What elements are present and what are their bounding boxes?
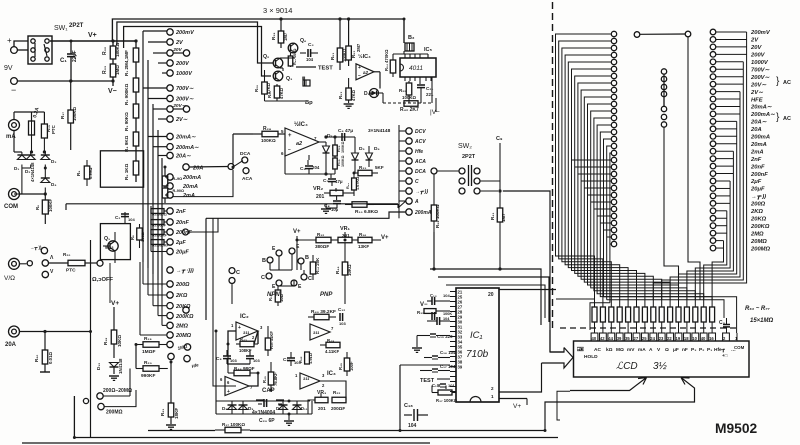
IC5 4011 chip — [400, 58, 436, 77]
sw2 contact 200mA — [406, 209, 412, 215]
svg-text:103: 103 — [230, 358, 237, 363]
wire bottom rail 443 — [22, 442, 430, 444]
svg-text:40: 40 — [592, 336, 597, 341]
svg-text:½IC₄: ½IC₄ — [358, 53, 371, 60]
svg-text:D₃: D₃ — [51, 159, 56, 164]
svg-text:→┲ ·))): →┲ ·))) — [176, 268, 194, 274]
rotary contact 20V — [167, 50, 173, 56]
svg-text:ℒCD: ℒCD — [616, 361, 638, 372]
IC5 top pins — [404, 54, 406, 58]
diode D13 LED — [370, 89, 379, 98]
svg-text:200nF: 200nF — [750, 172, 768, 178]
hfe socket B2 — [298, 258, 304, 264]
svg-text:100KΩ: 100KΩ — [341, 141, 345, 153]
wire bus vertical 153 — [152, 104, 154, 274]
svg-text:100KΩ: 100KΩ — [72, 107, 77, 121]
hfe socket C1 — [266, 273, 272, 279]
rotary contact 2mA — [167, 192, 173, 198]
svg-text:200ΩF: 200ΩF — [331, 406, 345, 411]
wire arrow feed upper — [550, 330, 564, 352]
resistor cap-range R&#8325;&#8326;900&#937; — [151, 209, 164, 214]
wire rail 218 left drop — [205, 218, 207, 320]
diode D6 — [366, 153, 373, 160]
svg-text:D₈: D₈ — [222, 406, 227, 411]
wire diode join — [22, 167, 31, 169]
rotary contact 20A&#8764; — [167, 152, 173, 158]
svg-text:a2: a2 — [363, 70, 369, 75]
svg-text:R₂ 900KΩ: R₂ 900KΩ — [124, 83, 129, 105]
rotary contact 200mA — [167, 174, 173, 180]
wire bus to 20M — [139, 262, 141, 335]
svg-text:10KΩ: 10KΩ — [347, 264, 352, 276]
capacitor osc2 — [276, 399, 284, 401]
svg-text:ACA: ACA — [414, 159, 426, 165]
transistor Q6 — [288, 43, 298, 53]
wire sw2 to c9 — [480, 180, 500, 182]
svg-text:2nF: 2nF — [750, 157, 762, 163]
wire matrix left feeds lower — [604, 139, 612, 297]
svg-text:0.99Ω: 0.99Ω — [88, 167, 93, 179]
svg-text:AC: AC — [783, 80, 791, 86]
junction DCA — [242, 157, 248, 163]
resistor R10 6.8K — [345, 204, 352, 206]
svg-text:4×1N4148: 4×1N4148 — [30, 162, 35, 182]
wire mA node down — [13, 131, 15, 153]
resistor R41b 11KF — [267, 330, 269, 338]
resistor R51 100K — [339, 19, 341, 48]
rotary contact 200Mohm — [98, 403, 104, 409]
battery 9V negative terminal — [11, 78, 18, 85]
wire cap range chain — [150, 206, 152, 247]
svg-text:R₉: R₉ — [76, 171, 81, 176]
wire dcv bus drop — [398, 212, 400, 218]
svg-text:20KΩ: 20KΩ — [750, 216, 767, 222]
rotary contact C lower — [229, 278, 235, 284]
rotary contact 200mV — [167, 29, 173, 35]
svg-text:M9502: M9502 — [715, 421, 758, 436]
wire battery minus rail — [17, 80, 113, 82]
svg-text:2P2T: 2P2T — [69, 23, 84, 29]
resistor R43 108KF — [236, 343, 240, 345]
svg-text:MΩ: MΩ — [616, 347, 624, 353]
wire D13 to R42 — [370, 92, 384, 94]
svg-text:E: E — [272, 246, 276, 252]
rotary contact 700V&#8764; — [167, 85, 173, 91]
wire shunt stubs — [165, 176, 167, 178]
sw2 contact C — [406, 178, 412, 184]
svg-text:ACV: ACV — [414, 139, 426, 145]
svg-text:47KΩ: 47KΩ — [351, 89, 356, 101]
svg-text:101: 101 — [448, 383, 455, 388]
svg-text:201: 201 — [316, 194, 325, 200]
svg-text:200V: 200V — [750, 53, 766, 59]
svg-text:710b: 710b — [466, 349, 489, 360]
junction circle Q1 base — [97, 260, 103, 266]
ground C8 — [326, 207, 337, 209]
arrow below LCD right — [600, 378, 695, 403]
resistor R55 100K — [408, 81, 410, 83]
svg-text:R₁₇: R₁₇ — [60, 112, 65, 119]
terminal COM — [9, 189, 20, 200]
svg-text:R₄₁: R₄₁ — [490, 212, 495, 220]
svg-text:C: C — [261, 275, 265, 281]
svg-text:R₃₂: R₃₂ — [102, 47, 108, 55]
svg-text:IC₁: IC₁ — [470, 330, 483, 341]
svg-text:2M7: 2M7 — [356, 43, 361, 52]
svg-text:1: 1 — [735, 336, 738, 341]
rotary contact 200mA&#8764; — [167, 144, 173, 150]
svg-text:200mA: 200mA — [182, 175, 201, 181]
resistor cap-range R&#8325;&#8327;900F — [151, 220, 164, 225]
IC1 notch — [470, 397, 481, 403]
svg-text:−: − — [288, 147, 291, 153]
junction dots — [280, 18, 283, 21]
svg-text:PTC: PTC — [66, 268, 76, 274]
wire COM node — [20, 193, 46, 195]
wire dcv bus — [399, 130, 406, 132]
svg-text:B: B — [262, 258, 266, 264]
fuse 0.2A — [13, 112, 15, 120]
svg-text:200KΩ: 200KΩ — [175, 314, 194, 320]
capacitor C16 104 — [432, 355, 438, 357]
svg-text:100KΩ: 100KΩ — [261, 138, 276, 143]
svg-text:1: 1 — [231, 323, 234, 328]
resistor R14 20K — [312, 255, 314, 262]
svg-text:20mA: 20mA — [750, 142, 767, 148]
svg-text:Q₂: Q₂ — [263, 54, 270, 60]
svg-text:R₂₀: R₂₀ — [144, 360, 152, 366]
svg-text:20V∼: 20V∼ — [750, 82, 767, 88]
resistor R32 180K — [112, 41, 114, 46]
LCD body — [574, 341, 750, 377]
terminal 20A — [9, 326, 20, 337]
capacitor C14 100K — [431, 312, 433, 320]
svg-text:6: 6 — [220, 377, 223, 382]
rotary contact 1M row — [167, 341, 173, 347]
svg-text:AC: AC — [594, 347, 601, 353]
wire rail 203 right — [248, 203, 399, 205]
rotary contact 20V&#8764; — [167, 106, 173, 112]
wire sw2 pole2 — [480, 190, 498, 192]
svg-text:19: 19 — [676, 336, 681, 341]
svg-text:COM: COM — [734, 345, 745, 350]
svg-text:2μF: 2μF — [750, 179, 762, 185]
svg-text:1: 1 — [295, 373, 298, 378]
svg-text:200mV: 200mV — [175, 30, 195, 36]
svg-text:4011: 4011 — [409, 65, 423, 72]
svg-text:2: 2 — [322, 383, 325, 388]
rotary contact second column 20V~ — [183, 106, 189, 112]
transistor Q3 — [273, 71, 283, 81]
resistor R9 099 — [86, 160, 88, 166]
hfe socket C2 — [301, 274, 307, 280]
svg-text:C₁₃: C₁₃ — [430, 293, 437, 298]
svg-text:6: 6 — [281, 151, 284, 156]
svg-text:700V∼: 700V∼ — [176, 86, 194, 92]
svg-text:4×1N4004: 4×1N4004 — [252, 410, 275, 416]
svg-text:10KΩ: 10KΩ — [117, 335, 122, 347]
ground IC1 caps — [417, 335, 424, 337]
wire R28 feed from junction — [233, 133, 253, 135]
svg-text:R₄₅: R₄₅ — [262, 376, 267, 383]
svg-text:R₅₉900KF: R₅₉900KF — [152, 244, 169, 248]
wire 20A to right — [20, 331, 91, 333]
svg-text:−: − — [358, 73, 361, 79]
resistor R35 — [424, 309, 436, 314]
svg-text:DCV: DCV — [415, 129, 426, 135]
svg-text:311: 311 — [313, 330, 320, 335]
transistor Q2 — [273, 58, 283, 68]
svg-text:E: E — [298, 284, 302, 290]
wire current stubs — [148, 136, 167, 138]
resistor R15 10 ohm — [277, 286, 279, 290]
svg-text:B₂: B₂ — [408, 35, 415, 41]
svg-text:R₄ 9KΩ: R₄ 9KΩ — [124, 135, 129, 152]
wire rail 218 to 200mA contact — [206, 212, 406, 218]
rotary contact C upper — [229, 268, 235, 274]
svg-text:}: } — [776, 112, 780, 123]
svg-text:100Ω: 100Ω — [140, 231, 145, 242]
rotary contact &#8594;&#9522; &#183;))) — [167, 267, 173, 273]
hfe socket E4 — [291, 280, 297, 286]
wire ac contact stubs — [143, 87, 167, 89]
svg-text:104: 104 — [408, 423, 417, 429]
capacitor C15 280 — [436, 317, 438, 325]
wire SW1 to V+ rail — [50, 40, 136, 42]
wire osc rail 401 — [216, 400, 310, 402]
resistor R52 2M7 — [348, 19, 350, 46]
wire buzzer block — [264, 94, 266, 101]
svg-text:2MΩ: 2MΩ — [750, 231, 764, 237]
resistor R19 PTC — [43, 112, 45, 124]
svg-text:R₂₀: R₂₀ — [63, 252, 70, 257]
resistor R7 90 ohm — [162, 188, 168, 198]
rotary contact 990K row — [168, 353, 174, 359]
junction circle 688 — [685, 31, 691, 37]
svg-text:200mA∼: 200mA∼ — [175, 145, 199, 151]
svg-text:C: C — [236, 270, 240, 276]
svg-text:104: 104 — [443, 317, 450, 321]
svg-text:DCA: DCA — [240, 151, 251, 157]
resistor R41 1M — [499, 188, 501, 208]
svg-text:20A: 20A — [750, 127, 762, 133]
svg-text:R₅ 1KΩ: R₅ 1KΩ — [124, 163, 129, 180]
svg-text:2mA: 2mA — [750, 149, 764, 155]
resistor R3 90KD — [135, 92, 137, 104]
rotary contact 200K&#937; — [167, 312, 173, 318]
svg-text:R₁₉: R₁₉ — [144, 336, 152, 342]
capacitor osc1 — [256, 399, 264, 401]
svg-text:44: 44 — [608, 336, 613, 341]
svg-text:IC₃: IC₃ — [327, 371, 336, 377]
svg-text:R₅₈91KF: R₅₈91KF — [152, 234, 168, 238]
dashed bus separator — [552, 2, 554, 330]
svg-text:100F: 100F — [349, 361, 354, 371]
svg-text:kΩ: kΩ — [606, 347, 613, 353]
matrix middle contact column — [661, 69, 666, 74]
box around Q1 — [100, 224, 130, 260]
svg-text:C₁₈: C₁₈ — [404, 403, 413, 409]
resistor R60 0.01 ohm shunt — [44, 332, 46, 351]
label TEST mid — [296, 66, 316, 68]
junction circle 637 — [634, 32, 640, 38]
terminal mA — [9, 120, 20, 131]
svg-text:R₁₅: R₁₅ — [268, 294, 273, 301]
svg-text:200mA: 200mA — [750, 135, 770, 141]
wire VR3 left leg — [308, 400, 315, 414]
svg-text:+: + — [238, 325, 241, 331]
svg-text:R₇90Ω: R₇90Ω — [173, 189, 185, 193]
wire sw2 to matrix — [503, 191, 550, 352]
svg-text:IC₅: IC₅ — [424, 47, 433, 53]
svg-text:R₃₁: R₃₁ — [346, 183, 350, 189]
wire C contacts down — [231, 284, 233, 305]
svg-text:20A: 20A — [5, 342, 17, 348]
svg-text:D₁₁: D₁₁ — [301, 406, 308, 411]
svg-text:R₁₈: R₁₈ — [103, 338, 108, 345]
wire IC3a output loop — [320, 381, 346, 400]
diode D7 — [325, 142, 327, 146]
svg-text:1: 1 — [491, 394, 494, 399]
svg-text:42: 42 — [600, 336, 605, 341]
svg-text:D₁₂: D₁₂ — [96, 363, 101, 370]
resistor R48 4.11KF — [320, 344, 326, 346]
svg-text:3×1N4148: 3×1N4148 — [368, 128, 391, 134]
svg-text:5KF: 5KF — [375, 165, 384, 170]
rotary contact 20M&#937; — [167, 332, 173, 338]
svg-text:⍈▣: ⍈▣ — [577, 347, 584, 353]
svg-text:R₅₃: R₅₃ — [338, 92, 343, 99]
svg-text:100K: 100K — [443, 312, 452, 316]
resistor R31 5KF — [354, 167, 356, 173]
diode D10 — [279, 405, 288, 410]
junction 20A wire — [228, 164, 234, 170]
svg-text:311: 311 — [303, 376, 310, 381]
svg-text:R₂₅: R₂₅ — [267, 91, 272, 98]
resistor R16b 13KF — [352, 239, 358, 241]
svg-text:47KΩ: 47KΩ — [279, 87, 284, 99]
svg-text:V+: V+ — [293, 229, 301, 235]
svg-text:1.91Ω: 1.91Ω — [308, 352, 313, 364]
svg-text:1M7: 1M7 — [283, 32, 288, 41]
junction ACA — [243, 168, 249, 174]
svg-text:20mA∼: 20mA∼ — [750, 105, 773, 111]
svg-text:R₂₆: R₂₆ — [254, 85, 259, 92]
svg-text:C₁₂: C₁₂ — [338, 307, 345, 312]
svg-text:V−: V− — [420, 302, 428, 308]
resistor R18 10K — [113, 307, 115, 330]
rotary contact 2nF — [167, 208, 173, 214]
svg-text:R₆: R₆ — [35, 205, 40, 210]
wire bus vertical 148 — [147, 60, 149, 268]
rotary contact 200V — [167, 60, 173, 66]
svg-text:104: 104 — [443, 293, 450, 298]
svg-text:200MΩ: 200MΩ — [106, 410, 123, 416]
resistor R49 100F — [346, 352, 348, 358]
svg-text:C₂: C₂ — [115, 215, 120, 220]
rotary contact 2K&#937; — [167, 292, 173, 298]
svg-text:nF: nF — [682, 347, 688, 353]
wire osc rail 414 — [216, 413, 312, 415]
svg-text:R₁₄ 20K: R₁₄ 20K — [315, 257, 320, 274]
capacitor C18 104 — [404, 414, 412, 416]
resistor R12 380F — [297, 239, 316, 241]
svg-text:R₅₅: R₅₅ — [399, 88, 407, 93]
svg-text:CAP: CAP — [262, 388, 275, 394]
capacitor C7 47u — [330, 174, 332, 178]
svg-text:→┲·)): →┲·)) — [751, 194, 766, 200]
svg-text:E: E — [296, 244, 300, 250]
svg-text:C₁⑩: C₁⑩ — [432, 383, 441, 388]
hfe socket E3 — [276, 280, 282, 286]
wire V- junction — [111, 79, 114, 82]
svg-text:}: } — [776, 76, 780, 87]
wire pin1 V plus — [526, 399, 528, 406]
wire arrow tail upper — [499, 363, 542, 392]
svg-text:−: − — [11, 85, 16, 95]
svg-text:P₁: P₁ — [707, 347, 712, 353]
arrow into LCD — [542, 348, 574, 369]
capacitor C11 103 — [287, 357, 295, 359]
svg-text:R₂₂: R₂₂ — [333, 390, 340, 395]
svg-text:2P2T: 2P2T — [462, 154, 476, 160]
diode D8 — [228, 405, 237, 410]
rotary contact 2M&#937; — [167, 322, 173, 328]
rotary contact second column 20V — [183, 50, 189, 56]
svg-text:27: 27 — [634, 336, 639, 341]
svg-text:C₉: C₉ — [496, 136, 503, 142]
svg-text:Q₁: Q₁ — [104, 236, 110, 242]
svg-text:→┲·)): →┲·)) — [30, 245, 42, 251]
svg-text:R₃₃: R₃₃ — [102, 65, 108, 74]
svg-text:R₅₄ 470KΩ: R₅₄ 470KΩ — [384, 49, 389, 71]
svg-text:1M7: 1M7 — [501, 213, 506, 222]
wire 20A to DCA — [189, 166, 228, 169]
battery 9V positive terminal — [11, 47, 18, 54]
svg-text:C₂₀ 6P: C₂₀ 6P — [259, 418, 275, 424]
wire 688 down to resistor 13 — [688, 37, 700, 300]
svg-text:1000V: 1000V — [176, 71, 193, 77]
svg-text:990KF: 990KF — [141, 373, 155, 379]
svg-text:COM: COM — [4, 204, 18, 210]
wire R20 vertical — [135, 345, 137, 369]
resistor cap-range R&#8325;&#8328;91KF — [151, 230, 164, 235]
ground osc — [288, 414, 290, 420]
svg-text:mV: mV — [627, 347, 635, 353]
svg-text:20A∼: 20A∼ — [175, 154, 191, 160]
svg-text:22: 22 — [667, 336, 672, 341]
sw2 contact ACA — [406, 158, 412, 164]
resistor R6b 100 ohm — [139, 224, 141, 228]
svg-text:200Ω: 200Ω — [175, 282, 190, 288]
wire R37 loop — [431, 386, 433, 393]
svg-text:201: 201 — [318, 406, 326, 411]
capacitor C9 103 — [223, 355, 231, 357]
svg-text:4.11KF: 4.11KF — [325, 349, 339, 354]
svg-text:2V: 2V — [750, 38, 759, 44]
diode D2 — [26, 155, 35, 160]
svg-text:R₄₈: R₄₈ — [327, 338, 334, 343]
svg-text:+□: +□ — [722, 353, 728, 358]
svg-text:20MΩ: 20MΩ — [750, 239, 767, 245]
wire 2mA to junction — [173, 170, 233, 197]
svg-text:7: 7 — [314, 136, 317, 141]
svg-text:V+: V+ — [111, 300, 119, 307]
svg-text:20mA∼: 20mA∼ — [175, 135, 196, 141]
sw2 contact DCA — [406, 168, 412, 174]
svg-text:D₅: D₅ — [359, 146, 365, 152]
svg-text:200V∼: 200V∼ — [750, 75, 771, 81]
